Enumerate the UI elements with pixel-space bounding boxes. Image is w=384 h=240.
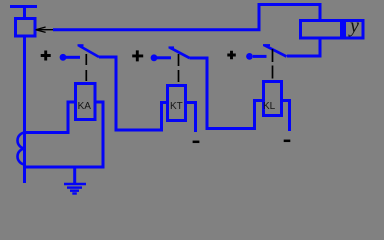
plus terminal 1 [41,51,51,61]
KT right terminal bracket [187,103,196,133]
plus terminal 2 [132,50,143,61]
switch blade S2 (KT contact) [170,48,190,58]
antenna T symbol [10,7,37,19]
blade tip tick S1 [78,44,84,46]
svg-text:KT: KT [170,101,183,112]
wire: stud S1 to blade gap [66,56,80,59]
ground symbol [64,184,86,194]
KA right terminal bracket [96,102,104,167]
wire: amplifier bottom to switch 3 [287,38,320,56]
blade tip tick S2 [169,46,175,48]
amplifier output sub-box [345,21,364,39]
KA left terminal bracket [68,102,75,134]
arrow into box (black) [36,27,54,32]
switch blade S3 (KL contact) [265,45,287,56]
blade tip tick S3 [263,44,270,46]
KT left terminal bracket [162,103,168,132]
relay coil KA [76,84,96,120]
mechanical link KT (dashed) [178,54,180,83]
CT secondary arc 1 [18,133,26,149]
CT secondary arc 2 [18,149,26,165]
KL left terminal bracket [255,101,264,131]
wire: stud S2 to blade gap [157,56,171,59]
amplifier box U1 [301,21,342,39]
contact stud S2 [151,54,158,61]
wire: stud S3 to blade gap [253,55,267,58]
svg-text:y: y [348,15,359,37]
wire: CT secondary top to KA left [24,131,70,134]
wire: S1 pivot down and across to KT coil [99,56,162,131]
switch blade S1 (KA contact) [79,46,99,58]
contact stud S1 [60,54,67,61]
mechanical link KA (dashed) [85,54,87,82]
ground stem [73,167,76,183]
wire: arrow to amplifier top entry [53,5,320,30]
wire: box bottom down to CT / ground branch [23,36,26,183]
svg-text:KL: KL [263,101,276,112]
minus terminal KT [193,141,200,144]
relay coil KT [168,86,186,121]
wire: S2 pivot down and across to KL coil [190,57,255,129]
mechanical link KL (dashed) [272,49,274,79]
contact stud S3 [246,53,253,60]
KL right terminal bracket [282,101,290,132]
wire: bottom return to KA right [24,166,105,169]
input device box (current transformer primary box) [16,19,36,37]
relay coil KL [264,82,282,116]
minus terminal KL [284,140,291,143]
svg-text:KA: KA [78,101,92,112]
plus terminal 3 [227,51,236,60]
